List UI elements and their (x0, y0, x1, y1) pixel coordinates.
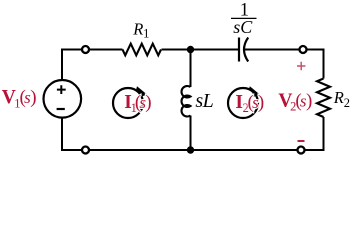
wire: bottom-left node to source bottom (62, 118, 81, 151)
svg-text:R1: R1 (132, 19, 149, 40)
resistor R1 (123, 44, 162, 56)
label 1/sC fraction bar (231, 17, 257, 19)
junction dot: top middle node (187, 46, 194, 53)
polarity minus (red) above bottom-right node (298, 140, 305, 142)
wire: left node to R1 (90, 49, 123, 51)
polarity plus (red) near top-right node (297, 62, 305, 70)
mesh current I2 arrow circle (228, 88, 258, 118)
wire: R1 to capacitor (162, 49, 240, 51)
wire: capacitor to top-right node (245, 49, 299, 51)
wire: inductor branch bottom (190, 116, 192, 151)
svg-text:R2: R2 (333, 88, 350, 110)
source V1 circle (44, 80, 82, 118)
svg-text:sC: sC (233, 17, 253, 37)
svg-text:I2(s): I2(s) (235, 92, 264, 115)
capacitor 1/sC right curved plate (244, 38, 248, 62)
mesh current I2 arrowhead (249, 86, 260, 97)
source plus sign (57, 85, 66, 94)
svg-text:sL: sL (195, 90, 213, 112)
svg-text:I1(s): I1(s) (124, 92, 151, 115)
junction dot: bottom middle node (187, 146, 194, 153)
node: top-right terminal (300, 46, 307, 53)
source minus sign (57, 108, 65, 110)
wire: R2 bottom to bottom-right node (305, 117, 323, 150)
mesh current I1 arrow circle (113, 88, 143, 118)
node: bottom-left terminal (82, 147, 89, 154)
capacitor 1/sC left plate (238, 38, 240, 62)
node: bottom-right terminal (298, 147, 305, 154)
wire: bottom-right node to bottom-left node (90, 149, 297, 151)
resistor R2 (317, 79, 330, 118)
wire: inductor branch top (190, 50, 192, 88)
svg-text:V1(s): V1(s) (2, 87, 37, 111)
inductor sL coil (182, 86, 191, 116)
svg-text:V2(s): V2(s) (278, 91, 312, 114)
wire: top-right node to R2 top corner (307, 50, 323, 79)
wire: top-left from source top to left node (62, 50, 81, 80)
mesh current I1 arrowhead (136, 86, 147, 97)
node: top-left terminal (82, 46, 89, 53)
